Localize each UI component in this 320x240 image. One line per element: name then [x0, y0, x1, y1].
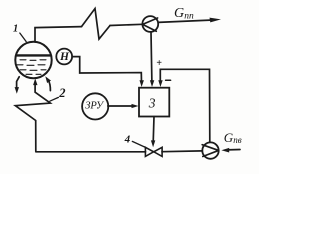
minus sign at (-) input	[166, 79, 171, 81]
leader line for label 1	[20, 33, 26, 42]
downcomer arrow out of drum (left)	[17, 77, 20, 89]
drum vessel 1 (boiler drum)	[15, 42, 51, 78]
Gпп steam flow arrow	[158, 20, 213, 22]
svg-text:+: +	[156, 58, 162, 69]
pipe break symbol on steam line	[82, 9, 111, 40]
water level line	[16, 54, 51, 56]
Gпв feedwater inlet arrow	[227, 149, 240, 151]
manual setter ЗРУ	[82, 93, 108, 119]
feedwater arrow into drum bottom	[33, 78, 37, 85]
controller box 3	[139, 88, 169, 117]
signal wire: ЗРУ to controller	[108, 105, 133, 107]
feedwater pipe: bottom horizontal to valve	[36, 151, 146, 153]
leader line for label 2	[50, 97, 59, 101]
svg-text:G: G	[174, 6, 184, 21]
svg-text:1: 1	[13, 24, 18, 35]
feedwater flow sensor	[202, 142, 218, 158]
steam pipe to flow sensor	[110, 24, 142, 25]
control signal wire: controller to valve	[152, 117, 155, 143]
svg-text:2: 2	[58, 86, 65, 100]
feedwater pipe: valve to flow sensor	[162, 150, 202, 153]
steam outlet pipe (drum top to break)	[35, 27, 82, 42]
svg-text:пв: пв	[233, 135, 242, 145]
svg-text:пп: пп	[184, 12, 194, 22]
control valve 4 (bowtie)	[145, 147, 153, 156]
svg-text:4: 4	[124, 134, 131, 146]
water hatching	[17, 60, 46, 75]
svg-text:ЗРУ: ЗРУ	[85, 100, 105, 111]
feedwater riser pipe with break symbol (element 2)	[15, 84, 50, 151]
signal wire: H sensor to controller input	[72, 57, 141, 83]
riser arrow into drum (right)	[48, 80, 50, 91]
level sensor H	[56, 49, 72, 65]
signal wire: feedwater sensor to controller (-) input	[160, 69, 210, 142]
signal wire: steam sensor to controller (+) input	[150, 32, 153, 83]
leader line for label 4	[132, 141, 146, 147]
steam flow sensor (orifice)	[142, 16, 158, 32]
svg-text:H: H	[59, 51, 70, 63]
svg-text:3: 3	[148, 96, 156, 111]
